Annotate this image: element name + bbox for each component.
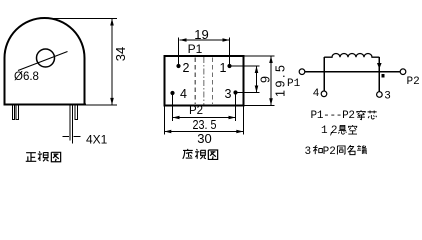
leader line through hole xyxy=(18,52,68,71)
svg-text:4X1: 4X1 xyxy=(86,133,108,147)
svg-text:3: 3 xyxy=(305,146,312,158)
dim 19.5 line xyxy=(270,56,272,105)
terminal 3 circle xyxy=(377,92,383,98)
svg-text:3: 3 xyxy=(385,89,391,101)
dashed line right xyxy=(212,58,214,105)
pin 2 extension up xyxy=(178,38,180,67)
svg-text:P1: P1 xyxy=(188,42,203,56)
body bottom line xyxy=(4,104,86,106)
hole circle ⌀6.8 xyxy=(37,49,55,67)
top edge extension (19.5) xyxy=(244,55,275,57)
svg-text:Ø6.8: Ø6.8 xyxy=(14,71,39,83)
terminal 4 circle xyxy=(321,91,327,97)
pin 1 extension right xyxy=(230,65,260,67)
svg-text:30: 30 xyxy=(197,131,211,146)
pin 1 extension up xyxy=(229,38,231,67)
dim 34: vertical line xyxy=(111,19,113,105)
dim 23.5 line xyxy=(173,117,236,119)
pin dot 4 xyxy=(170,91,174,95)
bottom extension line (for 34 dim) xyxy=(86,104,117,106)
caption 底视图 xyxy=(183,149,193,159)
terminal P1 circle xyxy=(299,69,305,75)
dim 30 line xyxy=(164,131,243,133)
pin 4 extension down xyxy=(172,93,174,121)
dim 30 extensions xyxy=(163,106,165,135)
svg-text:P2: P2 xyxy=(407,76,420,88)
caption 正视图 xyxy=(26,153,37,162)
dashed line left xyxy=(194,58,196,105)
bottom edge extension (19.5) xyxy=(244,104,275,106)
main wire xyxy=(305,71,400,73)
pin dot 3 xyxy=(233,90,237,94)
svg-text:4: 4 xyxy=(180,87,187,101)
wire left lead to pin 4 xyxy=(323,57,325,91)
svg-text:3: 3 xyxy=(225,87,232,101)
svg-text:2: 2 xyxy=(331,125,338,137)
polarity dot (same-name terminal mark) xyxy=(381,74,384,78)
pin front-right short xyxy=(75,105,77,120)
body outline (dome) xyxy=(5,18,85,105)
pin front-right long (4X1) xyxy=(69,105,71,141)
dim 19 line xyxy=(180,39,230,41)
svg-text:4: 4 xyxy=(313,87,319,99)
pin 3 extension down xyxy=(235,93,237,122)
terminal P2 circle xyxy=(400,69,406,75)
pin dot 2 xyxy=(176,64,180,68)
svg-text:23. 5: 23. 5 xyxy=(193,118,217,132)
current direction arrow xyxy=(377,63,382,69)
inductor L1 coil xyxy=(324,54,379,58)
pin front-left 1 xyxy=(12,105,14,120)
pin front-left 2 xyxy=(16,105,18,120)
svg-text:P1: P1 xyxy=(287,78,301,90)
svg-text:19.5: 19.5 xyxy=(274,65,288,97)
dim 9 line xyxy=(256,66,258,93)
svg-text:P1---P2: P1---P2 xyxy=(311,110,356,122)
svg-text:19: 19 xyxy=(194,27,208,42)
rect outline xyxy=(164,56,243,105)
svg-text:34: 34 xyxy=(113,47,128,61)
dim 34: top extension xyxy=(43,18,117,20)
dim 4X1 lines xyxy=(63,135,69,137)
pin 3 extension right xyxy=(236,92,260,94)
wire right lead to pin 3 xyxy=(378,57,380,91)
svg-text:P2: P2 xyxy=(189,105,203,117)
svg-text:P2: P2 xyxy=(323,146,336,158)
center line (dash-dot) xyxy=(203,57,205,105)
svg-text:1: 1 xyxy=(321,125,328,137)
svg-text:2: 2 xyxy=(183,61,190,75)
svg-text:9: 9 xyxy=(258,76,272,83)
svg-text:1: 1 xyxy=(220,61,227,75)
pin dot 1 xyxy=(227,64,231,68)
